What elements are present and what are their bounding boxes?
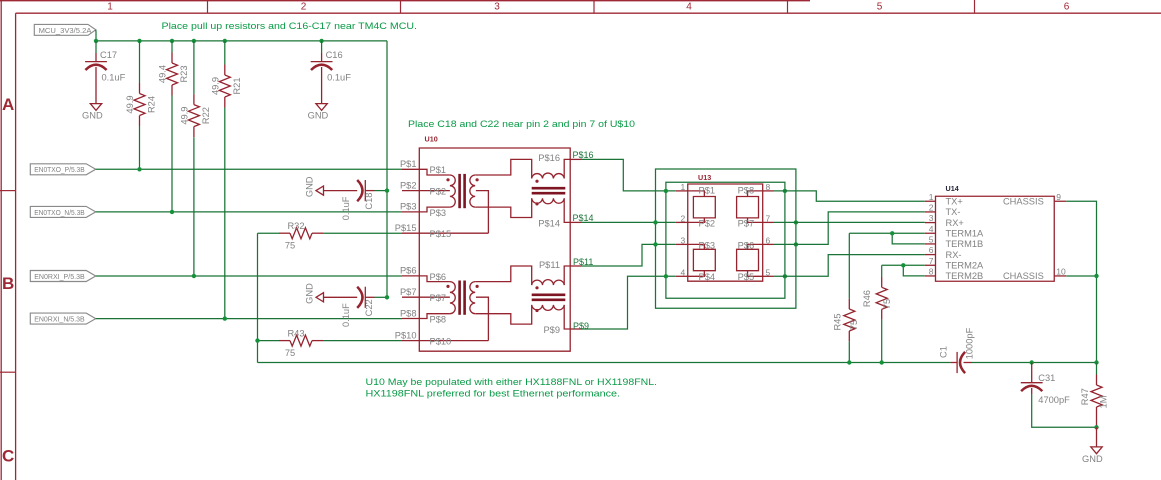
svg-text:U10 May be populated with eith: U10 May be populated with either HX1188F… — [366, 376, 658, 387]
svg-text:49.9: 49.9 — [180, 107, 190, 125]
svg-text:C31: C31 — [1038, 373, 1055, 383]
net flag EN0TXO_N/5.3B — [30, 206, 95, 217]
svg-text:B: B — [2, 274, 14, 293]
resistor R45 75 — [833, 233, 859, 362]
junction C22/P$7/3V3 — [385, 295, 389, 299]
svg-text:P$6: P$6 — [738, 240, 755, 250]
svg-text:6: 6 — [766, 236, 771, 246]
svg-text:R43: R43 — [287, 328, 304, 338]
junction U13 pin7 — [794, 220, 798, 224]
svg-text:P$1: P$1 — [400, 159, 417, 169]
capacitor C16 0.1uF with ground — [308, 41, 352, 121]
junction R23/EN0TXO_N — [170, 210, 174, 214]
svg-text:EN0TXO_P/5.3B: EN0TXO_P/5.3B — [34, 165, 84, 174]
transformer U10 body — [419, 148, 570, 351]
svg-text:R22: R22 — [201, 107, 211, 124]
wire TERM1A — [849, 232, 925, 234]
svg-text:75: 75 — [285, 348, 295, 358]
svg-text:GND: GND — [82, 111, 103, 121]
label U13 — [698, 173, 711, 182]
wire U13 pin6 to U14 TX- — [774, 212, 925, 245]
resistor R47 1M — [1080, 363, 1109, 428]
svg-text:P$3: P$3 — [430, 208, 447, 218]
U14 left pins 1-8 — [925, 192, 984, 281]
label P$16 net — [573, 150, 594, 160]
svg-text:0.1uF: 0.1uF — [327, 73, 351, 83]
wire bottom termination bus — [258, 362, 951, 364]
junction TERM2A — [901, 263, 905, 267]
net flag EN0RXI_P/5.3B — [30, 271, 95, 282]
svg-text:C1: C1 — [938, 346, 948, 358]
wire EN0TXO_N to U10 P$3 — [96, 211, 402, 213]
svg-text:1: 1 — [107, 2, 113, 13]
svg-text:0.1uF: 0.1uF — [102, 73, 126, 83]
wire EN0RXI_P to U10 P$6 — [96, 275, 402, 277]
wire EN0RXI_N to U10 P$8 — [96, 318, 402, 320]
note: U10 population line1 — [366, 376, 658, 387]
junction U13 pin6 — [794, 242, 798, 246]
svg-text:4: 4 — [686, 2, 692, 13]
svg-text:P$10: P$10 — [395, 330, 417, 340]
svg-text:P$14: P$14 — [538, 218, 560, 228]
transformer U10 TX section pins P$1 P$2 P$3 P$15 to P$16 P$14 — [395, 153, 581, 239]
junction U13 pin8 — [783, 189, 787, 193]
resistor R43 75 — [258, 328, 403, 358]
wire P$14 to U13 pin2 — [581, 221, 676, 223]
capacitor C17 0.1uF with ground — [82, 41, 126, 121]
junction R43 tap — [255, 338, 259, 342]
svg-text:P$14: P$14 — [573, 213, 594, 223]
svg-text:3: 3 — [929, 213, 934, 223]
svg-text:1M: 1M — [1098, 396, 1108, 409]
junction R22/EN0RXI_P — [192, 274, 196, 278]
U13 element P$3-P$4 — [676, 244, 716, 276]
wire P$16 to U13 pin1 — [581, 159, 676, 191]
svg-text:MCU_3V3/5.2A: MCU_3V3/5.2A — [39, 26, 93, 35]
svg-text:P$7: P$7 — [738, 219, 755, 229]
net flag EN0RXI_N/5.3B — [30, 313, 95, 324]
svg-text:RX-: RX- — [946, 250, 962, 260]
resistor R46 75 — [862, 265, 892, 362]
svg-text:1: 1 — [929, 192, 934, 202]
svg-text:P$15: P$15 — [430, 229, 452, 239]
supply flag MCU_3V3/5.2A — [34, 24, 96, 35]
svg-text:TX+: TX+ — [946, 197, 963, 207]
svg-text:P$7: P$7 — [400, 287, 417, 297]
junction on 3V3 bus x=96 — [94, 39, 98, 43]
svg-text:R21: R21 — [232, 77, 242, 94]
svg-text:75: 75 — [849, 320, 859, 330]
capacitor C22 0.1uF with ground — [305, 283, 387, 327]
svg-text:Place C18 and C22 near pin 2 a: Place C18 and C22 near pin 2 and pin 7 o… — [408, 118, 635, 129]
component U13 body — [688, 184, 763, 281]
wire inner ring (pins 1-4-8-5) — [666, 182, 785, 298]
junction R47 top — [1094, 360, 1098, 364]
U13 pin number labels — [680, 182, 770, 277]
U14 chassis pins 9 10 — [1003, 192, 1066, 281]
svg-text:0.1uF: 0.1uF — [341, 196, 351, 220]
note: place C18 and C22 — [408, 118, 635, 129]
svg-text:R47: R47 — [1080, 388, 1090, 405]
wire P$9 to U13 pin4 — [581, 276, 676, 329]
svg-text:49.9: 49.9 — [125, 95, 135, 113]
svg-text:CHASSIS: CHASSIS — [1003, 271, 1044, 281]
svg-text:5: 5 — [766, 267, 771, 277]
wire chassis 9 down — [1066, 201, 1096, 362]
svg-text:4: 4 — [929, 224, 934, 234]
svg-text:C16: C16 — [326, 50, 343, 60]
capacitor C31 4700pF — [1021, 363, 1097, 428]
svg-text:TERM1A: TERM1A — [946, 229, 985, 239]
svg-text:P$2: P$2 — [430, 187, 447, 197]
svg-text:P$1: P$1 — [430, 165, 447, 175]
svg-text:75: 75 — [882, 299, 892, 309]
svg-text:R45: R45 — [833, 313, 843, 330]
junction on 3V3 bus x=193.9 — [192, 39, 196, 43]
junction U13 pin3 — [653, 242, 657, 246]
wire TERM2A-TERM2B bridge — [903, 265, 925, 276]
svg-text:CHASSIS: CHASSIS — [1003, 197, 1044, 207]
capacitor C1 1000pF — [938, 327, 974, 373]
svg-text:7: 7 — [766, 214, 771, 224]
row label B — [2, 274, 14, 293]
svg-text:4700pF: 4700pF — [1038, 395, 1070, 405]
label P$11 net — [573, 257, 593, 267]
junction R21/EN0RXI_N — [223, 316, 227, 320]
junction on 3V3 bus x=172 — [170, 39, 174, 43]
junction U13 pin2 — [653, 220, 657, 224]
svg-text:TERM1B: TERM1B — [946, 239, 984, 249]
resistor R23 49.4 — [158, 41, 190, 212]
junction U13 pin1 — [664, 189, 668, 193]
svg-text:P$11: P$11 — [573, 257, 593, 267]
svg-text:0.1uF: 0.1uF — [341, 303, 351, 327]
svg-text:P$10: P$10 — [430, 337, 452, 347]
svg-text:2: 2 — [680, 214, 685, 224]
svg-text:75: 75 — [285, 241, 295, 251]
svg-text:Place pull up resistors and C1: Place pull up resistors and C16-C17 near… — [162, 20, 418, 31]
wire 3V3 vertical to center taps — [386, 41, 388, 297]
wire outer loop (pins 2-3-7-6) — [656, 169, 796, 308]
svg-text:R32: R32 — [287, 221, 304, 231]
label U10 — [425, 135, 438, 144]
wire 3V3 bus — [96, 40, 387, 42]
svg-text:P$15: P$15 — [395, 223, 417, 233]
junction U13 pin4 — [664, 274, 668, 278]
svg-text:C: C — [2, 447, 14, 466]
U13 pin name labels — [699, 186, 755, 283]
resistor R21 49.9 — [210, 41, 242, 319]
svg-text:3: 3 — [680, 236, 685, 246]
svg-text:P$5: P$5 — [738, 272, 755, 282]
U13 element P$6-P$5 — [737, 244, 774, 276]
junction on 3V3 bus x=139.5 — [137, 39, 141, 43]
svg-text:9: 9 — [1056, 192, 1061, 202]
row label C — [2, 447, 14, 466]
svg-text:HX1198FNL preferred for best E: HX1198FNL preferred for best Ethernet pe… — [366, 388, 621, 399]
svg-text:3: 3 — [494, 2, 500, 13]
svg-text:2: 2 — [301, 2, 307, 13]
svg-text:49.9: 49.9 — [210, 77, 220, 95]
note: place pull up resistors — [162, 20, 418, 31]
junction on 3V3 bus x=321.6 — [319, 39, 323, 43]
ground symbol bottom right — [1082, 427, 1103, 464]
wire R32/R43 left vertical — [257, 233, 259, 362]
junction R45 bottom — [847, 360, 851, 364]
svg-text:GND: GND — [305, 283, 315, 304]
svg-text:8: 8 — [929, 267, 934, 277]
svg-text:2: 2 — [929, 203, 934, 213]
U13 element P$8-P$7 — [737, 191, 774, 223]
svg-text:A: A — [2, 95, 14, 114]
junction R46 bottom — [880, 360, 884, 364]
svg-text:P$3: P$3 — [699, 240, 716, 250]
connector U14 body — [936, 196, 1055, 281]
svg-text:C17: C17 — [100, 50, 117, 60]
svg-text:P$2: P$2 — [400, 180, 417, 190]
svg-text:1: 1 — [680, 182, 685, 192]
wire U13 pin8 to U14 TX+ — [774, 191, 925, 201]
U13 element P$1-P$2 — [676, 191, 716, 223]
wire flag to bus — [95, 30, 97, 41]
svg-text:TERM2B: TERM2B — [946, 271, 984, 281]
svg-text:P$9: P$9 — [543, 325, 560, 335]
svg-text:P$1: P$1 — [699, 186, 716, 196]
wire U13 pin5 to U14 RX- — [774, 255, 925, 277]
wire P$11 to U13 pin3 — [581, 244, 676, 266]
svg-text:1000pF: 1000pF — [964, 327, 974, 359]
wire EN0TXO_P to U10 P$1 — [96, 168, 402, 170]
svg-text:R23: R23 — [179, 65, 189, 82]
net flag EN0TXO_P/5.3B — [30, 164, 95, 175]
svg-text:EN0TXO_N/5.3B: EN0TXO_N/5.3B — [34, 208, 84, 217]
svg-text:EN0RXI_N/5.3B: EN0RXI_N/5.3B — [34, 315, 84, 324]
svg-text:P$2: P$2 — [699, 219, 716, 229]
wire chassis 10 — [1066, 275, 1096, 277]
svg-text:TERM2A: TERM2A — [946, 261, 985, 271]
svg-text:P$11: P$11 — [539, 260, 560, 270]
svg-text:U10: U10 — [425, 135, 438, 144]
junction C18/P$2/3V3 — [385, 188, 389, 192]
svg-text:10: 10 — [1056, 267, 1066, 277]
junction R24/EN0TXO_P — [137, 167, 141, 171]
junction chassis — [1094, 274, 1098, 278]
svg-text:P$4: P$4 — [699, 272, 716, 282]
wire TERM1A-TERM1B bridge — [892, 233, 925, 244]
junction C31 tap — [1030, 360, 1034, 364]
svg-text:P$6: P$6 — [430, 272, 447, 282]
resistor R32 75 — [258, 221, 403, 251]
svg-text:C22: C22 — [364, 299, 374, 316]
svg-text:GND: GND — [305, 176, 315, 197]
svg-text:RX+: RX+ — [946, 218, 964, 228]
wire TERM2A — [882, 264, 925, 266]
svg-text:P$7: P$7 — [430, 293, 447, 303]
svg-text:P$3: P$3 — [400, 202, 417, 212]
wire C1 to R47 — [972, 362, 1097, 364]
svg-text:5: 5 — [877, 2, 883, 13]
svg-text:P$8: P$8 — [430, 314, 447, 324]
resistor R22 49.9 — [180, 41, 212, 276]
svg-text:GND: GND — [1082, 454, 1103, 464]
resistor R24 49.9 — [125, 41, 157, 169]
svg-text:P$8: P$8 — [738, 186, 755, 196]
junction TERM1A — [890, 231, 894, 235]
svg-text:EN0RXI_P/5.3B: EN0RXI_P/5.3B — [34, 272, 84, 281]
svg-text:GND: GND — [308, 111, 329, 121]
svg-text:P$16: P$16 — [538, 153, 560, 163]
transformer U10 RX section pins P$6 P$7 P$8 P$10 to P$11 P$9 — [395, 260, 581, 347]
capacitor C18 0.1uF with ground — [305, 176, 387, 220]
junction on 3V3 bus x=224.8 — [223, 39, 227, 43]
svg-text:6: 6 — [929, 245, 934, 255]
svg-text:R46: R46 — [862, 290, 872, 307]
svg-text:P$16: P$16 — [573, 150, 594, 160]
svg-text:P$6: P$6 — [400, 266, 417, 276]
svg-text:6: 6 — [1064, 2, 1070, 13]
wire U13 pin7 to U14 RX+ — [774, 221, 925, 223]
svg-text:R24: R24 — [147, 96, 157, 113]
svg-text:C18: C18 — [364, 193, 374, 210]
svg-text:U13: U13 — [698, 173, 711, 182]
svg-text:5: 5 — [929, 235, 934, 245]
row label A — [2, 95, 14, 114]
svg-text:U14: U14 — [946, 184, 959, 193]
svg-text:4: 4 — [680, 267, 685, 277]
junction R47 bottom / C31 — [1094, 425, 1098, 429]
label U14 — [946, 184, 959, 193]
junction U13 pin5 — [783, 274, 787, 278]
svg-text:8: 8 — [766, 182, 771, 192]
svg-text:49.4: 49.4 — [158, 65, 168, 83]
note: U10 population line2 — [366, 388, 621, 399]
label P$9 net — [573, 321, 589, 331]
svg-text:P$8: P$8 — [400, 308, 417, 318]
svg-text:7: 7 — [929, 256, 934, 266]
svg-text:TX-: TX- — [946, 207, 961, 217]
label P$14 net — [573, 213, 594, 223]
